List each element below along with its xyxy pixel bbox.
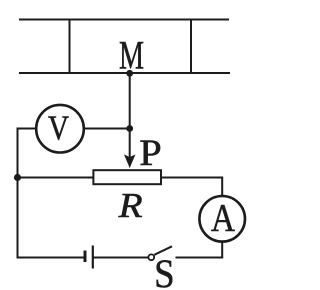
wire junction down to arrow [129, 129, 131, 159]
node dot under M [126, 70, 133, 77]
svg-text:R: R [117, 186, 142, 225]
battery long plate [92, 246, 94, 269]
svg-text:P: P [139, 133, 162, 174]
wire bottom left to battery [17, 257, 85, 259]
switch S blade [154, 246, 172, 255]
slider arrow P [126, 156, 134, 166]
node junction left wire / resistor wire [14, 174, 21, 181]
voltmeter U-V circle [36, 105, 84, 153]
wire left vertical lower [17, 178, 19, 259]
wire M down to junction [129, 73, 131, 129]
svg-text:V: V [48, 109, 69, 148]
svg-text:M: M [119, 32, 144, 77]
wire battery to switch [94, 257, 149, 259]
wire node to resistor [18, 177, 94, 179]
wire ammeter down [221, 242, 223, 258]
ammeter U-A circle [199, 196, 245, 242]
resistor R box [93, 170, 161, 184]
svg-text:A: A [211, 196, 235, 239]
node junction V-wire / slider wire [126, 125, 133, 132]
rail top [19, 19, 229, 21]
svg-text:S: S [154, 251, 175, 290]
block M left edge [69, 19, 71, 73]
wire voltmeter right to node [84, 128, 130, 130]
battery short plate [84, 251, 87, 263]
wire switch to ammeter [176, 257, 224, 259]
block M right edge [190, 19, 192, 73]
wire voltmeter left [18, 129, 37, 178]
rail bottom [19, 72, 230, 74]
wire resistor to ammeter [162, 178, 223, 197]
switch S pivot circle [148, 254, 154, 260]
